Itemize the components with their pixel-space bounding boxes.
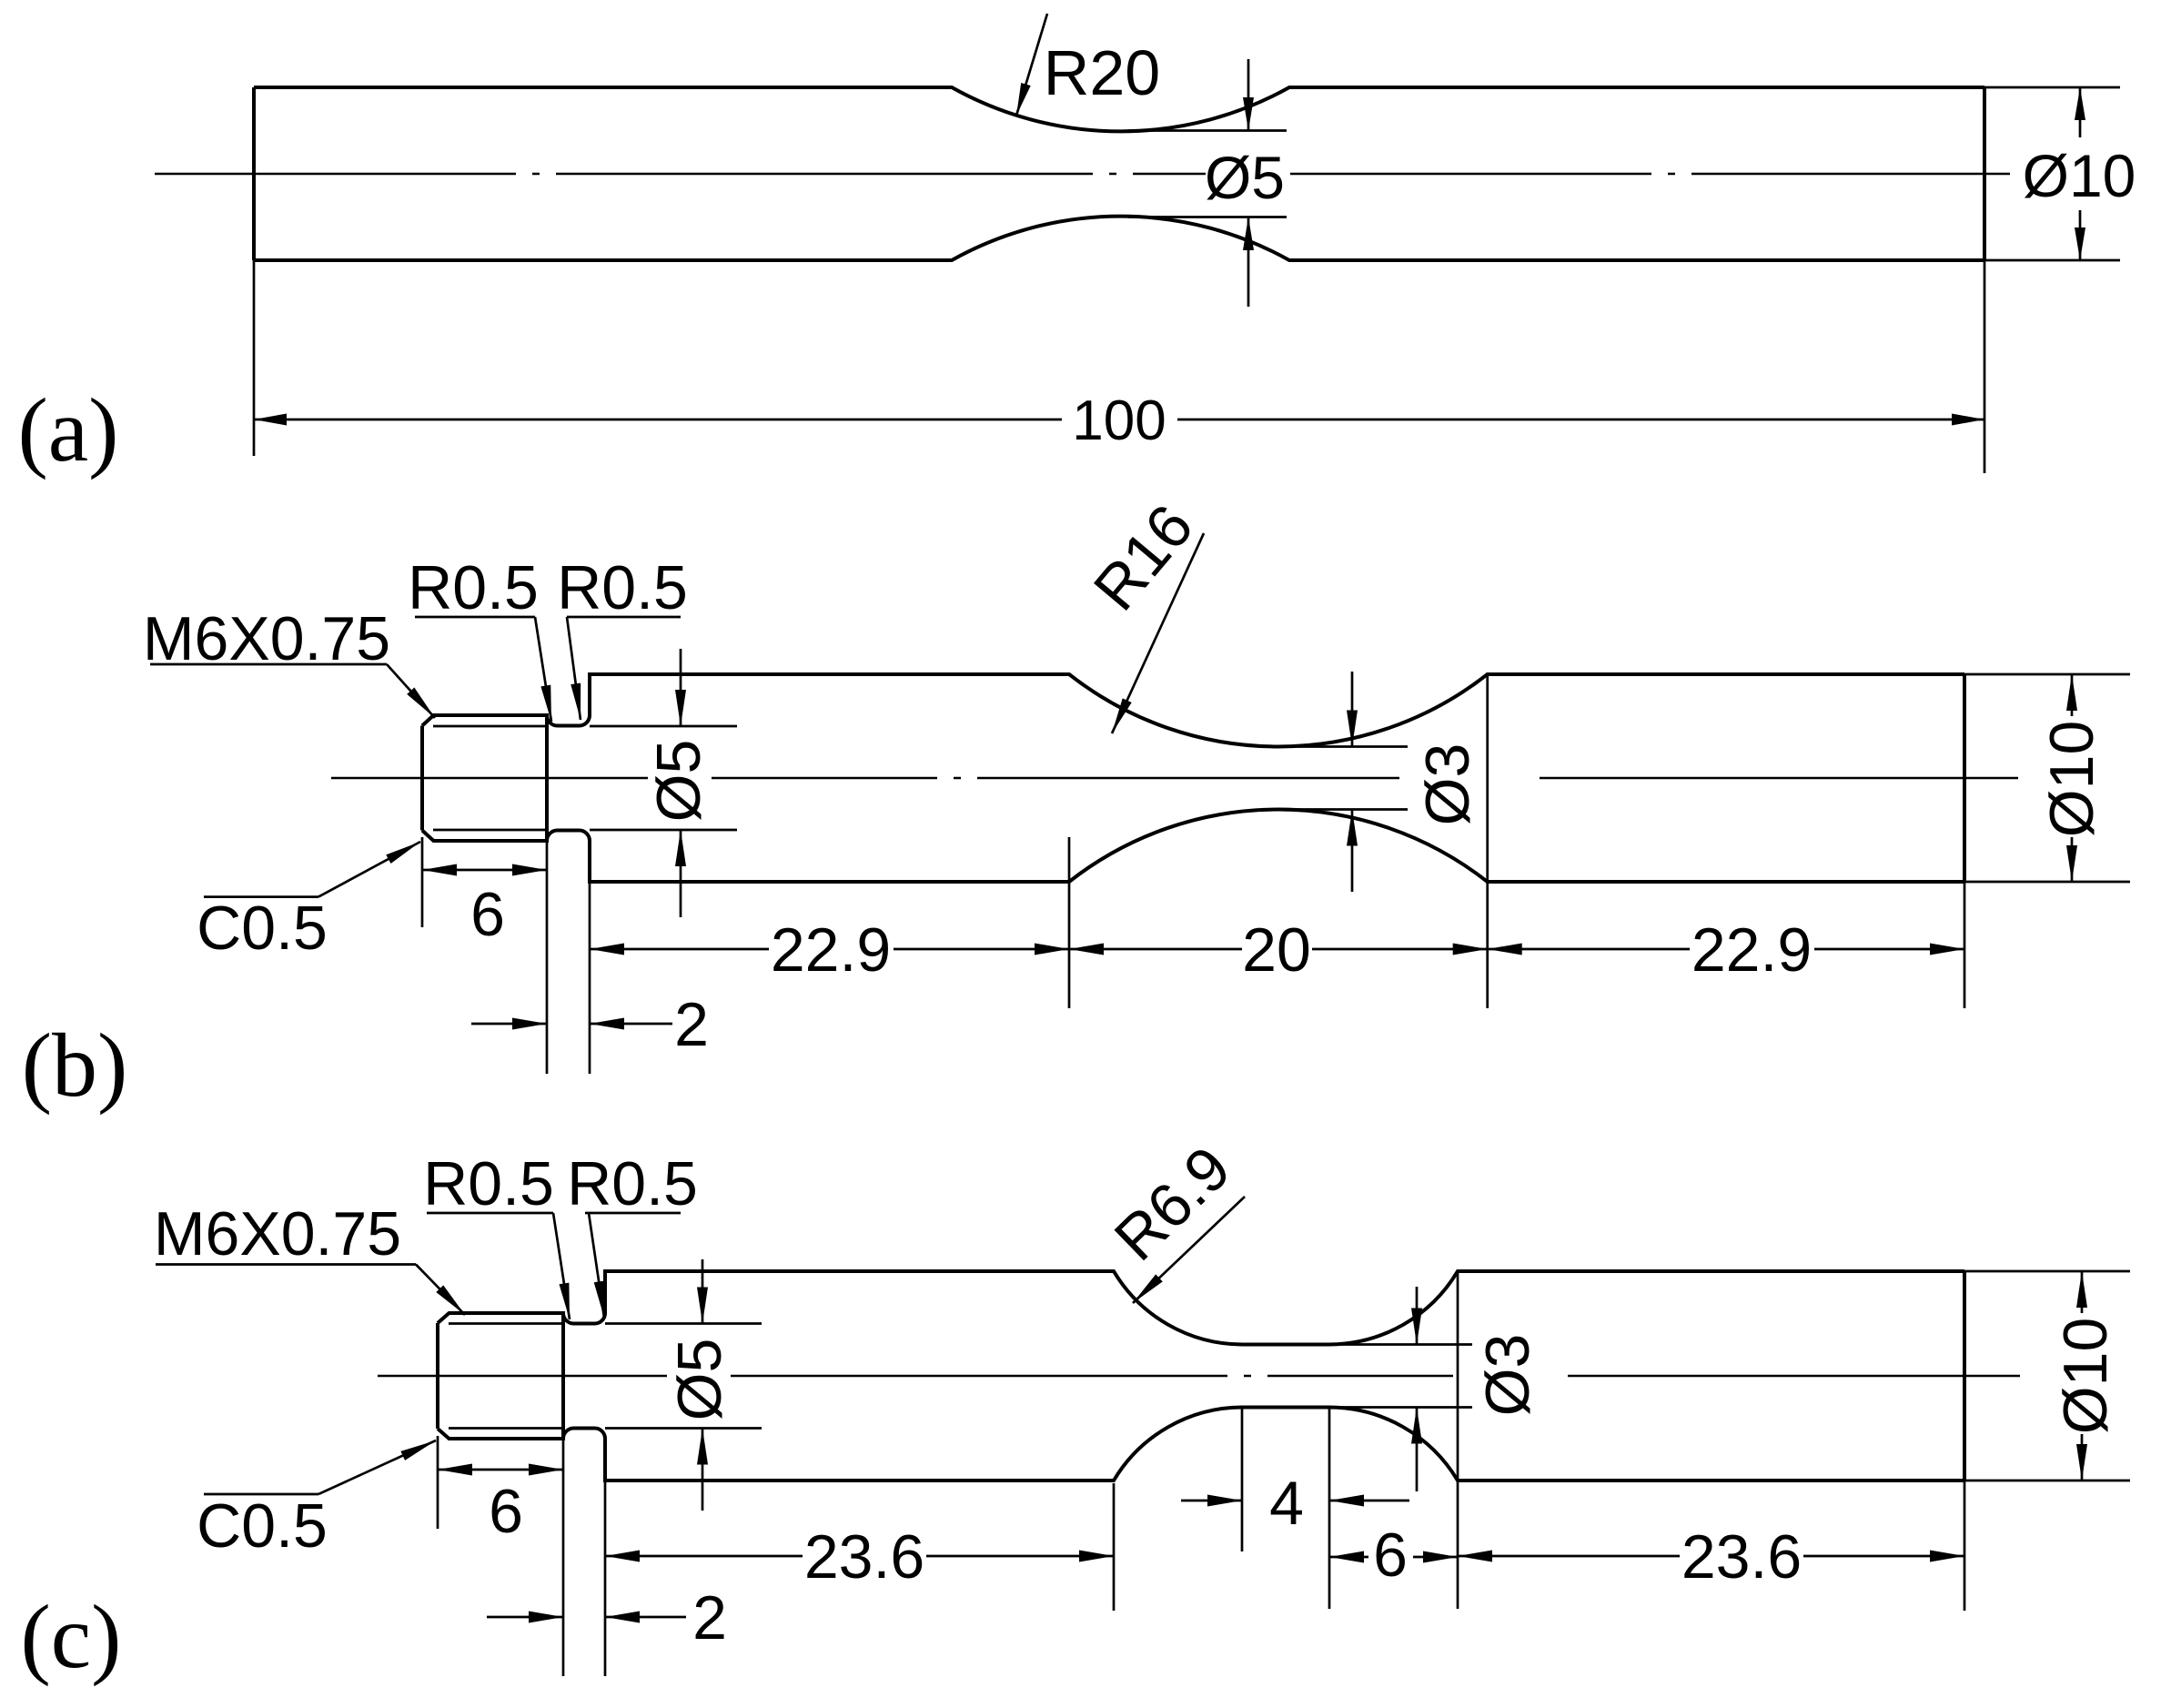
extension lines Ø10 (a) xyxy=(1984,87,2120,260)
Ø5 extension lines (b) xyxy=(590,726,737,830)
svg-text:Ø3: Ø3 xyxy=(1473,1334,1542,1417)
svg-text:2: 2 xyxy=(692,1583,727,1652)
leader C0.5 (b) xyxy=(318,842,420,897)
svg-text:Ø5: Ø5 xyxy=(665,1339,734,1421)
Ø10 extension lines (c) xyxy=(1964,1271,2130,1481)
dim 4 (c) xyxy=(1181,1500,1242,1502)
dim 23.6 right (c) xyxy=(1458,1555,1964,1558)
svg-text:100: 100 xyxy=(1072,389,1166,452)
Ø5 dim arrows (b) xyxy=(680,649,682,726)
svg-text:Ø10: Ø10 xyxy=(2023,142,2136,209)
svg-text:R0.5: R0.5 xyxy=(557,553,688,622)
Ø3 dim arrows (c) xyxy=(1416,1287,1419,1345)
extension lines bottom dims (b) xyxy=(422,674,1964,1074)
svg-text:22.9: 22.9 xyxy=(771,915,891,985)
Ø3 extension lines (c) xyxy=(1329,1345,1472,1408)
centerline (c) xyxy=(378,1375,667,1378)
svg-text:6: 6 xyxy=(489,1477,523,1546)
arrow 100 right xyxy=(1952,414,1984,426)
svg-text:23.6: 23.6 xyxy=(804,1522,924,1592)
svg-text:R0.5: R0.5 xyxy=(423,1149,554,1218)
dim 22.9 left (b) xyxy=(590,948,1069,951)
Ø10 extension lines (b) xyxy=(1964,674,2130,882)
extension line right for 100 dim xyxy=(1984,260,1986,473)
specimen (c) outline top xyxy=(438,1271,1964,1345)
arrow 100 left xyxy=(254,414,287,426)
leader M6X0.75 (c) xyxy=(416,1265,465,1316)
svg-text:(b): (b) xyxy=(22,1015,128,1116)
Ø10 bottom arrow (a) xyxy=(2079,210,2082,260)
svg-text:6: 6 xyxy=(470,880,505,949)
svg-text:Ø3: Ø3 xyxy=(1413,743,1482,826)
leader R0.5 #2 (b) xyxy=(567,617,581,720)
svg-text:Ø5: Ø5 xyxy=(1205,144,1285,211)
specimen (b) outline bottom xyxy=(422,809,1964,882)
extension line left for 100 dim xyxy=(253,260,256,456)
Ø5 extension lines (c) xyxy=(605,1324,762,1429)
svg-text:R0.5: R0.5 xyxy=(408,553,539,622)
Ø10 top arrow (a) xyxy=(2079,87,2082,137)
R20 leader xyxy=(1016,14,1047,116)
svg-text:2: 2 xyxy=(674,990,709,1059)
svg-text:Ø5: Ø5 xyxy=(644,740,713,823)
dim 6 neck (c) xyxy=(1329,1556,1458,1559)
svg-text:20: 20 xyxy=(1242,915,1311,985)
svg-text:C0.5: C0.5 xyxy=(197,1491,328,1561)
leader C0.5 (c) xyxy=(318,1440,436,1494)
Ø3 dim arrows (b) xyxy=(1351,672,1354,747)
specimen (c) end faces xyxy=(438,1271,1964,1481)
svg-text:(a): (a) xyxy=(18,379,119,480)
svg-text:(c): (c) xyxy=(21,1586,122,1687)
dim 23.6 left (c) xyxy=(605,1555,1114,1558)
dim 22.9 right (b) xyxy=(1488,948,1964,951)
dim 2 (c) xyxy=(487,1616,563,1619)
svg-text:Ø10: Ø10 xyxy=(2051,1318,2120,1435)
dim 20 (b) xyxy=(1069,948,1488,951)
svg-text:M6X0.75: M6X0.75 xyxy=(154,1199,401,1268)
specimen (c) outline bottom xyxy=(438,1408,1964,1481)
leader R0.5 #1 (b) xyxy=(535,617,551,722)
specimen (a) outline xyxy=(254,87,1984,260)
leader R0.5 #2 (c) xyxy=(589,1213,604,1318)
svg-text:4: 4 xyxy=(1269,1469,1304,1538)
svg-text:6: 6 xyxy=(1373,1521,1408,1590)
Ø3 extension lines (b) xyxy=(1276,747,1408,810)
thread root lines (c) xyxy=(449,1324,563,1429)
leader R0.5 #1 (c) xyxy=(553,1213,570,1319)
svg-text:M6X0.75: M6X0.75 xyxy=(143,604,390,673)
centerline (b) xyxy=(331,777,648,780)
centerline (a) xyxy=(155,173,2010,176)
dimension 100 line xyxy=(254,419,1984,421)
dim 6 thread (c) xyxy=(438,1469,563,1471)
svg-text:23.6: 23.6 xyxy=(1681,1522,1802,1592)
extension lines Ø5 (a) xyxy=(1128,131,1287,217)
leader R6.9 (c) xyxy=(1133,1197,1245,1303)
svg-text:R20: R20 xyxy=(1044,37,1160,108)
specimen (b) outline top xyxy=(422,674,1964,747)
leader R16 (b) xyxy=(1112,533,1204,733)
extension lines bottom dims (c) xyxy=(438,1271,1964,1676)
svg-text:Ø10: Ø10 xyxy=(2037,721,2106,838)
Ø10 dim arrows (c) xyxy=(2081,1271,2084,1313)
leader M6X0.75 (b) xyxy=(387,664,435,718)
dim 2 (b) xyxy=(471,1023,547,1026)
Ø10 dim arrows (b) xyxy=(2071,674,2074,716)
Ø5 bottom arrow xyxy=(1247,217,1250,308)
svg-text:22.9: 22.9 xyxy=(1691,915,1812,985)
Ø5 top arrow xyxy=(1247,59,1250,131)
dim 6 (b) xyxy=(422,869,547,872)
specimen (b) end faces xyxy=(422,674,1964,882)
Ø5 dim arrows (c) xyxy=(702,1259,704,1324)
svg-text:R0.5: R0.5 xyxy=(567,1149,698,1218)
thread root lines (b) xyxy=(433,726,547,830)
svg-text:C0.5: C0.5 xyxy=(197,894,328,963)
